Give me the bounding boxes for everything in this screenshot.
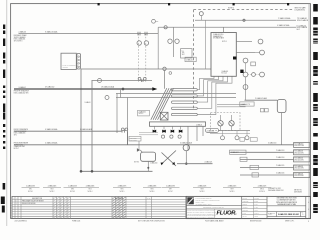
wire pump P1 suction	[220, 115, 222, 121]
svg-text:J.CHEN: J.CHEN	[254, 198, 258, 200]
valve V4 small	[137, 148, 140, 152]
heavy steam header line	[14, 88, 153, 90]
tag box E1	[185, 57, 196, 61]
wire nest to bundle row2	[197, 76, 218, 96]
svg-text:DWG INDEX: DWG INDEX	[294, 191, 302, 193]
svg-text:DWG 1014 SH1: DWG 1014 SH1	[294, 159, 304, 161]
svg-text:R: R	[13, 198, 14, 200]
instrument I7 on line E	[98, 79, 102, 83]
instrument I19 large	[183, 144, 189, 150]
svg-text:2-GAB-C01-1B08-101-001: 2-GAB-C01-1B08-101-001	[278, 213, 299, 216]
wire tank drain	[281, 113, 283, 145]
junction node L1	[80, 170, 82, 172]
svg-text:NOTE 1: NOTE 1	[28, 191, 33, 193]
pipe line L (y=171.3)	[81, 170, 153, 172]
svg-text:N: N	[16, 198, 17, 200]
instrument I15	[243, 85, 248, 90]
svg-text:MICROFILM 0508: MICROFILM 0508	[250, 221, 262, 223]
svg-text:NOTE 2: NOTE 2	[50, 191, 55, 193]
instrument I10	[260, 50, 265, 55]
wire riser continuation down	[157, 34, 159, 69]
svg-text:NOTE 10: NOTE 10	[259, 191, 265, 193]
wire nest to bundle row1	[197, 76, 214, 89]
junction node on line D	[163, 67, 166, 70]
wire header drop 4	[180, 126, 182, 129]
instrument I13	[252, 73, 256, 77]
tube bundle element 2	[172, 95, 198, 97]
svg-text:SEE NOTE 1: SEE NOTE 1	[294, 190, 302, 192]
pipe line A	[195, 19, 296, 21]
svg-text:NOTE 5: NOTE 5	[120, 191, 125, 193]
fold tick marks on top border	[98, 3, 100, 5]
svg-text:SH 10: SH 10	[260, 189, 264, 191]
revision table horizontal rules	[12, 199, 186, 201]
off-page connector K	[294, 143, 311, 148]
svg-text:SH 1 NOTE 3: SH 1 NOTE 3	[14, 40, 23, 42]
tank T1	[277, 100, 286, 113]
pipe line B	[158, 26, 296, 28]
wire drop x120.5	[120, 89, 122, 98]
pipe outlet line	[230, 151, 294, 153]
svg-text:SUPPLY DWG: SUPPLY DWG	[14, 144, 23, 146]
svg-text:CHIN SHIRST 3RD UNITS TUNN: CHIN SHIRST 3RD UNITS TUNN	[276, 198, 296, 200]
instrument I17	[170, 135, 173, 138]
diverter box with cross	[160, 112, 168, 120]
crossing relief lines	[162, 151, 177, 165]
wire header drop 2	[163, 126, 165, 129]
wire pump discharge header	[220, 126, 222, 131]
wire vessel downcomer x81	[80, 69, 82, 171]
instrument boxes under tank line	[260, 109, 264, 112]
valve V2 on line C	[144, 32, 146, 36]
svg-text:NOTE 7: NOTE 7	[168, 191, 173, 193]
left margin punch marks	[3, 25, 5, 30]
instrument I21	[235, 136, 239, 140]
svg-text:FORM 120-B: FORM 120-B	[72, 221, 80, 223]
package box U1	[211, 33, 236, 77]
pump P2	[229, 121, 234, 126]
svg-text:PROJ EN: PROJ EN	[243, 210, 248, 212]
wire nest to bundle row3	[197, 76, 223, 102]
flash pot vessel	[141, 152, 156, 161]
instrument I23 small	[169, 72, 172, 75]
wire nest to bundle row5	[197, 76, 232, 114]
tube bundle element 4	[172, 107, 198, 109]
junction node L2	[91, 170, 93, 172]
gauge column G1	[77, 54, 81, 70]
valve V1 on line C	[137, 32, 139, 36]
off-page connector	[294, 165, 311, 170]
wire header drop 3	[171, 126, 173, 129]
pipe line K2 (y=133.5)	[210, 133, 250, 135]
title block divider vertical 3	[305, 196, 307, 218]
instrument I5	[168, 39, 172, 43]
pipe outlet line	[240, 174, 294, 176]
wire header drop 7 long	[202, 126, 204, 136]
svg-text:B: B	[308, 209, 309, 211]
instrument I3	[137, 41, 141, 45]
wire branch x173 from line B	[173, 27, 175, 57]
wire U1 right y41.5	[236, 41, 252, 43]
svg-text:DWG 1012 SH1: DWG 1012 SH1	[294, 145, 304, 147]
instrument I22	[245, 136, 249, 140]
wire instrument stub	[245, 63, 247, 72]
svg-text:SH 9: SH 9	[231, 189, 234, 191]
wire pump P2 suction	[231, 115, 233, 121]
instrument I1 on line A	[199, 12, 203, 16]
solid black valve H2	[233, 57, 237, 60]
svg-text:CHECKED: CHECKED	[243, 201, 249, 203]
revision table vertical rules	[14, 196, 16, 218]
wire drop x139	[138, 141, 140, 149]
off-page connector	[294, 150, 311, 155]
instrument I9	[258, 39, 263, 44]
svg-text:SH 8: SH 8	[201, 189, 204, 191]
wire header drop 6 long	[196, 126, 198, 141]
revision table check marks	[53, 197, 56, 199]
svg-text:M.LIN: M.LIN	[254, 210, 257, 212]
tag box pair T2	[129, 136, 141, 141]
pipe outlet line	[240, 158, 294, 160]
dashed battery-limit boundary vertical	[193, 10, 195, 110]
valve V3 cluster on line E	[138, 77, 141, 80]
svg-text:SET: SET	[182, 54, 185, 56]
solid black valve H1	[240, 70, 243, 73]
pipe line from K1	[219, 130, 251, 132]
svg-text:1992-06: 1992-06	[254, 213, 259, 215]
outlet tag box	[240, 157, 247, 161]
svg-text:DWG 1013 SH1: DWG 1013 SH1	[294, 152, 304, 154]
left margin lower punch marks	[3, 183, 6, 190]
wire elbow x127.5 to line K	[127, 131, 129, 145]
svg-text:S.LEE: S.LEE	[254, 201, 258, 203]
instrument I4	[144, 41, 148, 45]
wire x205 drop	[205, 20, 207, 69]
riser from line C to line B	[157, 27, 159, 33]
svg-text:DESCRIPTION: DESCRIPTION	[32, 198, 42, 200]
svg-text:NOTE 3: NOTE 3	[70, 191, 75, 193]
instrument I20	[221, 136, 225, 140]
svg-text:ISSUED FOR DESIGN: ISSUED FOR DESIGN	[22, 203, 35, 205]
tag box small b	[250, 138, 257, 142]
svg-text:NOT TO BE USED FOR CONSTRUCTIO: NOT TO BE USED FOR CONSTRUCTION	[138, 221, 165, 223]
instrument I6	[175, 39, 179, 43]
black valve W2	[162, 130, 166, 133]
outlet tag box	[252, 173, 259, 177]
pipe line D (y=69)	[81, 68, 211, 70]
pipe to pump suction b	[217, 106, 246, 108]
signal line S2	[145, 34, 147, 82]
scanned page left edge line	[6, 0, 8, 226]
junction node on line B	[164, 26, 167, 29]
client logo emblem	[187, 197, 194, 204]
pump package dashed box	[211, 113, 240, 131]
pump P1	[218, 121, 223, 126]
svg-text:1: 1	[308, 221, 309, 223]
pipe outlet line	[240, 167, 294, 169]
wire pot drain	[147, 161, 149, 171]
svg-text:R.WU: R.WU	[254, 204, 257, 206]
svg-text:NOTE 4: NOTE 4	[139, 113, 144, 115]
note box N1	[181, 49, 192, 58]
svg-text:SH 1: SH 1	[14, 134, 17, 136]
pipe line C	[19, 33, 159, 35]
svg-text:100: 100	[182, 52, 185, 54]
wire drop x127.5	[127, 98, 129, 146]
wire line B drop to U1	[223, 27, 225, 32]
right border inner line	[308, 4, 310, 219]
svg-text:SH 5: SH 5	[121, 189, 124, 191]
off-page connector	[294, 157, 311, 162]
wire header drop 1	[153, 126, 155, 129]
instrument I2 above line B	[152, 19, 156, 23]
outlet tag box	[230, 150, 247, 154]
pipe line E (y=80.5)	[92, 80, 153, 82]
svg-text:1: 1	[303, 214, 304, 216]
title block rule 1	[186, 204, 241, 206]
svg-text:NOTE 6: NOTE 6	[134, 161, 139, 163]
number strip rule	[267, 211, 306, 213]
title block divider vertical 2	[266, 196, 268, 218]
svg-text:COOLER: COOLER	[63, 67, 68, 69]
signal line S1	[138, 34, 140, 82]
svg-text:LC: LC	[182, 50, 184, 52]
black valve W3	[171, 130, 175, 133]
valve cluster line J	[121, 128, 124, 131]
title block rule 2	[186, 208, 241, 210]
title block mid table rules	[242, 199, 267, 201]
svg-text:NONE: NONE	[272, 213, 275, 215]
pipe to tank T1	[245, 99, 278, 101]
equipment note label	[138, 110, 150, 116]
svg-text:NONE: NONE	[254, 216, 258, 218]
svg-text:NOTE 5: NOTE 5	[222, 41, 227, 43]
svg-text:FLUOR.: FLUOR.	[217, 211, 238, 217]
right margin glyph column	[313, 4, 318, 12]
svg-text:SH 6: SH 6	[151, 189, 154, 191]
instrument I11	[243, 58, 248, 63]
svg-text:SH 3: SH 3	[71, 189, 74, 191]
svg-text:REV: REV	[301, 212, 303, 214]
logo cell divider	[214, 209, 216, 219]
instrument I16	[161, 135, 164, 138]
svg-text:SH 2: SH 2	[297, 29, 300, 31]
pipe line K (y=144.8)	[14, 144, 294, 146]
wire tag lines right	[139, 132, 158, 134]
instrument I12	[243, 72, 248, 77]
title block divider vertical 1	[241, 196, 243, 218]
instrument I18	[178, 135, 181, 138]
outlet tag box	[250, 165, 259, 169]
distribution header box	[150, 122, 206, 126]
svg-text:DESIGN: DESIGN	[243, 204, 248, 206]
wire I19 drop	[185, 151, 187, 164]
dashed battery-limit boundary horizontal	[194, 9, 294, 11]
pipe to pump suction a	[217, 103, 246, 105]
svg-text:NOTE 7: NOTE 7	[14, 148, 19, 150]
diagonal duct lines	[151, 88, 167, 120]
svg-text:NOTE 8: NOTE 8	[200, 191, 205, 193]
instrument I8 on line G	[105, 96, 109, 100]
svg-text:SH 1: SH 1	[29, 189, 32, 191]
svg-text:SH 2: SH 2	[51, 189, 54, 191]
svg-text:NOTE 4: NOTE 4	[88, 191, 93, 193]
svg-text:NOTE 9: NOTE 9	[230, 191, 235, 193]
svg-text:DWG 1015 SH1: DWG 1015 SH1	[294, 168, 304, 170]
wire vertical x92	[91, 81, 93, 172]
black valve W1	[153, 130, 157, 133]
tag box small a	[240, 138, 245, 142]
svg-text:SH 7: SH 7	[169, 189, 172, 191]
pipe line H (y=163.7)	[177, 163, 213, 165]
pipe line F (y=93.5)	[116, 93, 236, 95]
tag box tank feed	[240, 102, 254, 106]
wire U1 right y52.5	[236, 52, 255, 54]
wire nest to bundle row4	[197, 76, 227, 108]
tube bundle element 3	[172, 101, 198, 103]
number strip dividers	[276, 212, 278, 217]
pipe line G (y=97.5)	[116, 97, 236, 99]
tube bundle element 1	[172, 89, 198, 91]
off-page connector	[294, 173, 311, 178]
title block frame	[186, 196, 310, 218]
svg-text:DWG 1016 SH1: DWG 1016 SH1	[294, 175, 304, 177]
signal dashes between instruments	[248, 74, 252, 76]
revision table frame	[12, 196, 186, 218]
svg-text:T.HSU: T.HSU	[254, 207, 258, 209]
tube bundle element 5	[172, 113, 198, 115]
svg-text:NOTE 6: NOTE 6	[150, 191, 155, 193]
reference strip	[22, 185, 40, 193]
tag capsule K1	[206, 128, 219, 132]
svg-text:EL 115-0: EL 115-0	[222, 73, 228, 75]
instrument small box	[251, 62, 256, 66]
svg-text:SH 4: SH 4	[89, 189, 92, 191]
black valve W4	[179, 130, 183, 133]
wire drop x117	[116, 94, 118, 134]
title block mid table divider	[253, 196, 255, 218]
wire header drop 5 long	[187, 126, 189, 150]
flow arrow on header	[152, 87, 157, 91]
pipe line J (y=131.2)	[14, 130, 122, 132]
instrument I14	[260, 72, 265, 77]
title box rule	[267, 205, 306, 207]
wire drop from node D	[164, 71, 166, 89]
junction node on line A	[243, 19, 245, 21]
svg-text:SHEET 1 OF 1: SHEET 1 OF 1	[285, 221, 294, 223]
junction node on header	[122, 88, 124, 90]
svg-text:NOTE 2: NOTE 2	[228, 8, 234, 10]
exchanger box B1	[61, 53, 76, 69]
